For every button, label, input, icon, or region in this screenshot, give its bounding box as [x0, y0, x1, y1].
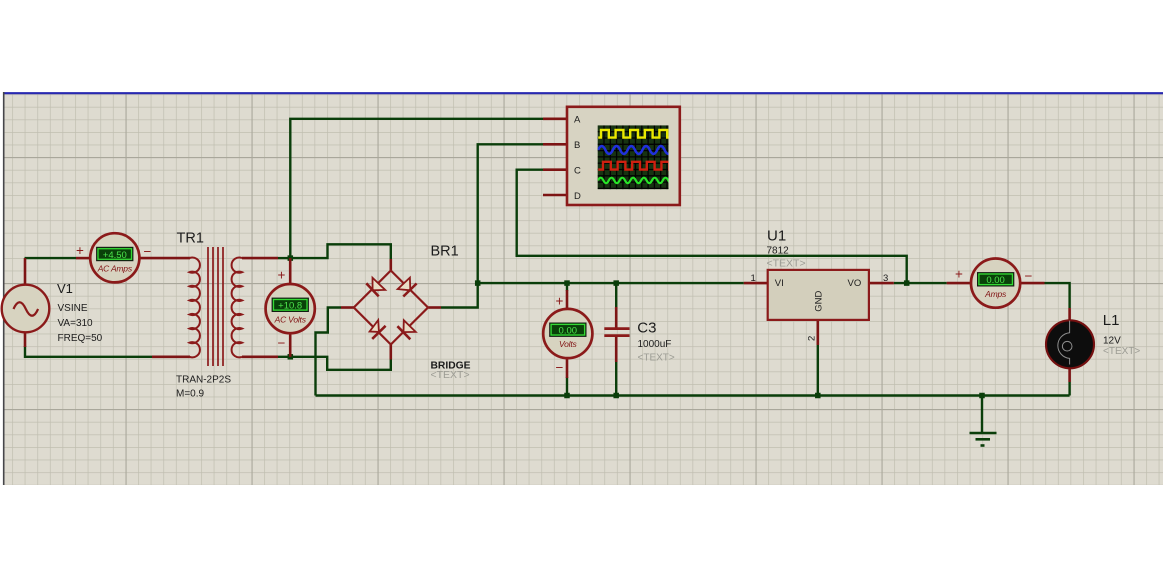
bridge rectifier BR1 — [354, 271, 428, 345]
wire volts meter top stub — [566, 283, 568, 291]
wire U1 GND to rail — [817, 345, 819, 396]
svg-text:+: + — [955, 267, 963, 282]
svg-text:<TEXT>: <TEXT> — [1103, 346, 1140, 357]
svg-text:M=0.9: M=0.9 — [176, 389, 205, 400]
svg-text:TRAN-2P2S: TRAN-2P2S — [176, 375, 231, 386]
wire V1- to TR1 primary bottom — [25, 346, 152, 357]
svg-text:VSINE: VSINE — [58, 303, 88, 314]
svg-text:3: 3 — [883, 273, 888, 284]
pin U1 2 — [816, 320, 819, 345]
pin bridge right — [429, 306, 442, 309]
junction C3 top — [613, 280, 619, 286]
wire bridge right pin to DC+ column — [441, 144, 543, 307]
svg-text:L1: L1 — [1103, 312, 1120, 329]
pin V1 top — [24, 258, 27, 285]
capacitor C3 — [604, 329, 629, 336]
wire volts meter bottom stub — [566, 377, 568, 396]
svg-text:U1: U1 — [767, 228, 786, 245]
svg-text:<TEXT>: <TEXT> — [638, 353, 675, 364]
pin bridge left — [341, 306, 354, 309]
wire U1 VO to amps meter — [894, 282, 947, 284]
svg-text:0.00: 0.00 — [559, 326, 578, 337]
junction U1 GND rail — [815, 393, 821, 399]
sheet background grid — [3, 93, 1163, 485]
AC ammeter — [90, 233, 139, 282]
lamp L1 — [1046, 320, 1094, 368]
DC+ junction at scope B column — [475, 280, 481, 286]
sheet left border — [3, 92, 5, 485]
source V1 — [2, 285, 50, 333]
svg-text:AC Amps: AC Amps — [97, 264, 133, 274]
pin scope C — [543, 168, 567, 171]
pin TR1 secondary top — [242, 257, 278, 260]
svg-text:12V: 12V — [1103, 336, 1121, 347]
waveform channel A yellow — [598, 130, 674, 138]
DC voltmeter — [543, 309, 592, 358]
svg-text:VA=310: VA=310 — [58, 318, 94, 329]
waveform channel C red — [598, 162, 676, 170]
svg-text:C3: C3 — [637, 320, 656, 337]
wire ground rail — [316, 394, 1070, 396]
diode D-topleft — [366, 278, 385, 297]
junction VO node — [904, 280, 910, 286]
pin AC volts meter bottom — [289, 332, 292, 356]
pin TR1 primary bottom — [152, 355, 190, 358]
svg-text:<TEXT>: <TEXT> — [767, 257, 806, 269]
pin scope A — [543, 118, 567, 121]
wire bridge left pin down to ground rail — [316, 308, 342, 396]
wire C3 top stub — [615, 283, 617, 308]
svg-text:<TEXT>: <TEXT> — [431, 369, 470, 381]
pin U1 3 — [869, 282, 894, 285]
AC voltmeter — [266, 284, 315, 333]
wire C3 bottom stub — [615, 361, 617, 396]
svg-text:D: D — [574, 191, 581, 202]
pin bridge top — [389, 259, 392, 271]
pin C3 bottom — [615, 337, 618, 363]
junction volts meter top — [564, 280, 570, 286]
diode D-bottomright — [397, 320, 415, 339]
pin V1 bottom — [24, 332, 27, 347]
svg-text:7812: 7812 — [767, 246, 790, 257]
svg-text:Volts: Volts — [559, 339, 578, 349]
svg-text:FREQ=50: FREQ=50 — [58, 333, 103, 344]
pin amps meter left — [947, 282, 972, 285]
junction C3 bottom — [613, 393, 619, 399]
svg-text:−: − — [1025, 269, 1033, 284]
node A junction — [288, 255, 294, 261]
pin volts meter bottom — [566, 357, 569, 378]
svg-text:+: + — [556, 294, 564, 309]
wire node A jog to bridge top — [290, 244, 391, 259]
pin bridge bottom — [389, 344, 392, 360]
svg-text:VO: VO — [848, 278, 862, 289]
pin C3 top — [615, 307, 618, 328]
svg-text:2: 2 — [807, 336, 818, 341]
svg-text:+4.50: +4.50 — [103, 250, 127, 261]
pin scope D — [543, 194, 567, 197]
diamond outline — [354, 271, 428, 345]
diode D-bottomleft — [370, 320, 386, 339]
svg-text:−: − — [144, 244, 152, 259]
svg-text:AC Volts: AC Volts — [274, 314, 307, 324]
junction dots — [288, 255, 985, 398]
svg-text:C: C — [574, 166, 581, 177]
primary winding — [190, 258, 200, 358]
svg-text:1000uF: 1000uF — [638, 339, 672, 350]
svg-text:1: 1 — [751, 273, 756, 284]
svg-text:−: − — [556, 360, 564, 375]
wire node B jog to bridge bottom — [290, 357, 391, 370]
pin AC volts meter top — [289, 258, 292, 285]
ground — [970, 433, 997, 446]
wire node A up to scope A — [290, 119, 543, 258]
pin lamp bottom — [1068, 368, 1071, 383]
svg-text:VI: VI — [775, 278, 784, 289]
svg-text:GND: GND — [814, 291, 825, 312]
svg-text:+10.8: +10.8 — [278, 301, 302, 312]
svg-text:Amps: Amps — [984, 289, 1007, 299]
DC ammeter — [971, 259, 1020, 308]
svg-text:+: + — [76, 243, 84, 258]
wire ground symbol stem — [981, 396, 983, 434]
svg-text:V1: V1 — [57, 281, 73, 296]
pin ammeter right / TR1 primary top — [139, 257, 191, 260]
svg-text:−: − — [278, 336, 286, 351]
svg-text:+: + — [278, 268, 286, 283]
svg-text:TR1: TR1 — [177, 230, 204, 246]
svg-text:B: B — [574, 140, 580, 151]
wire lamp bottom to rail — [1068, 382, 1070, 396]
diode D-topright — [398, 278, 417, 297]
wire TR1 secondary top to node A column — [278, 257, 290, 259]
junction ground symbol — [979, 393, 985, 399]
pin volts meter top — [566, 290, 569, 310]
scope screen — [598, 125, 669, 189]
wire DC+ rail to U1 VI — [478, 282, 744, 284]
pin U1 1 — [744, 282, 768, 285]
secondary winding — [232, 258, 242, 358]
svg-text:A: A — [574, 115, 581, 126]
wire TR1 secondary bottom to node B — [278, 356, 290, 358]
waveform channel B blue — [598, 146, 679, 154]
wire scope C to VO node — [517, 170, 907, 283]
svg-text:BR1: BR1 — [431, 244, 459, 260]
pin ammeter left — [76, 257, 91, 260]
core — [208, 247, 223, 366]
junction volts meter bottom — [564, 393, 570, 399]
svg-text:0.00: 0.00 — [986, 275, 1005, 286]
node B junction — [288, 354, 294, 360]
sheet top blue border — [3, 92, 1163, 94]
wire V1+ to ammeter — [25, 257, 77, 259]
pin amps meter right — [1020, 282, 1045, 285]
pin lamp top — [1068, 308, 1071, 322]
oscilloscope body — [567, 107, 680, 205]
regulator U1 — [751, 270, 889, 341]
pin scope B — [543, 143, 567, 146]
waveform channel D green — [598, 178, 674, 183]
wire amps meter to lamp — [1045, 283, 1070, 308]
transformer TR1 — [190, 247, 243, 366]
pin TR1 secondary bottom — [242, 355, 278, 358]
